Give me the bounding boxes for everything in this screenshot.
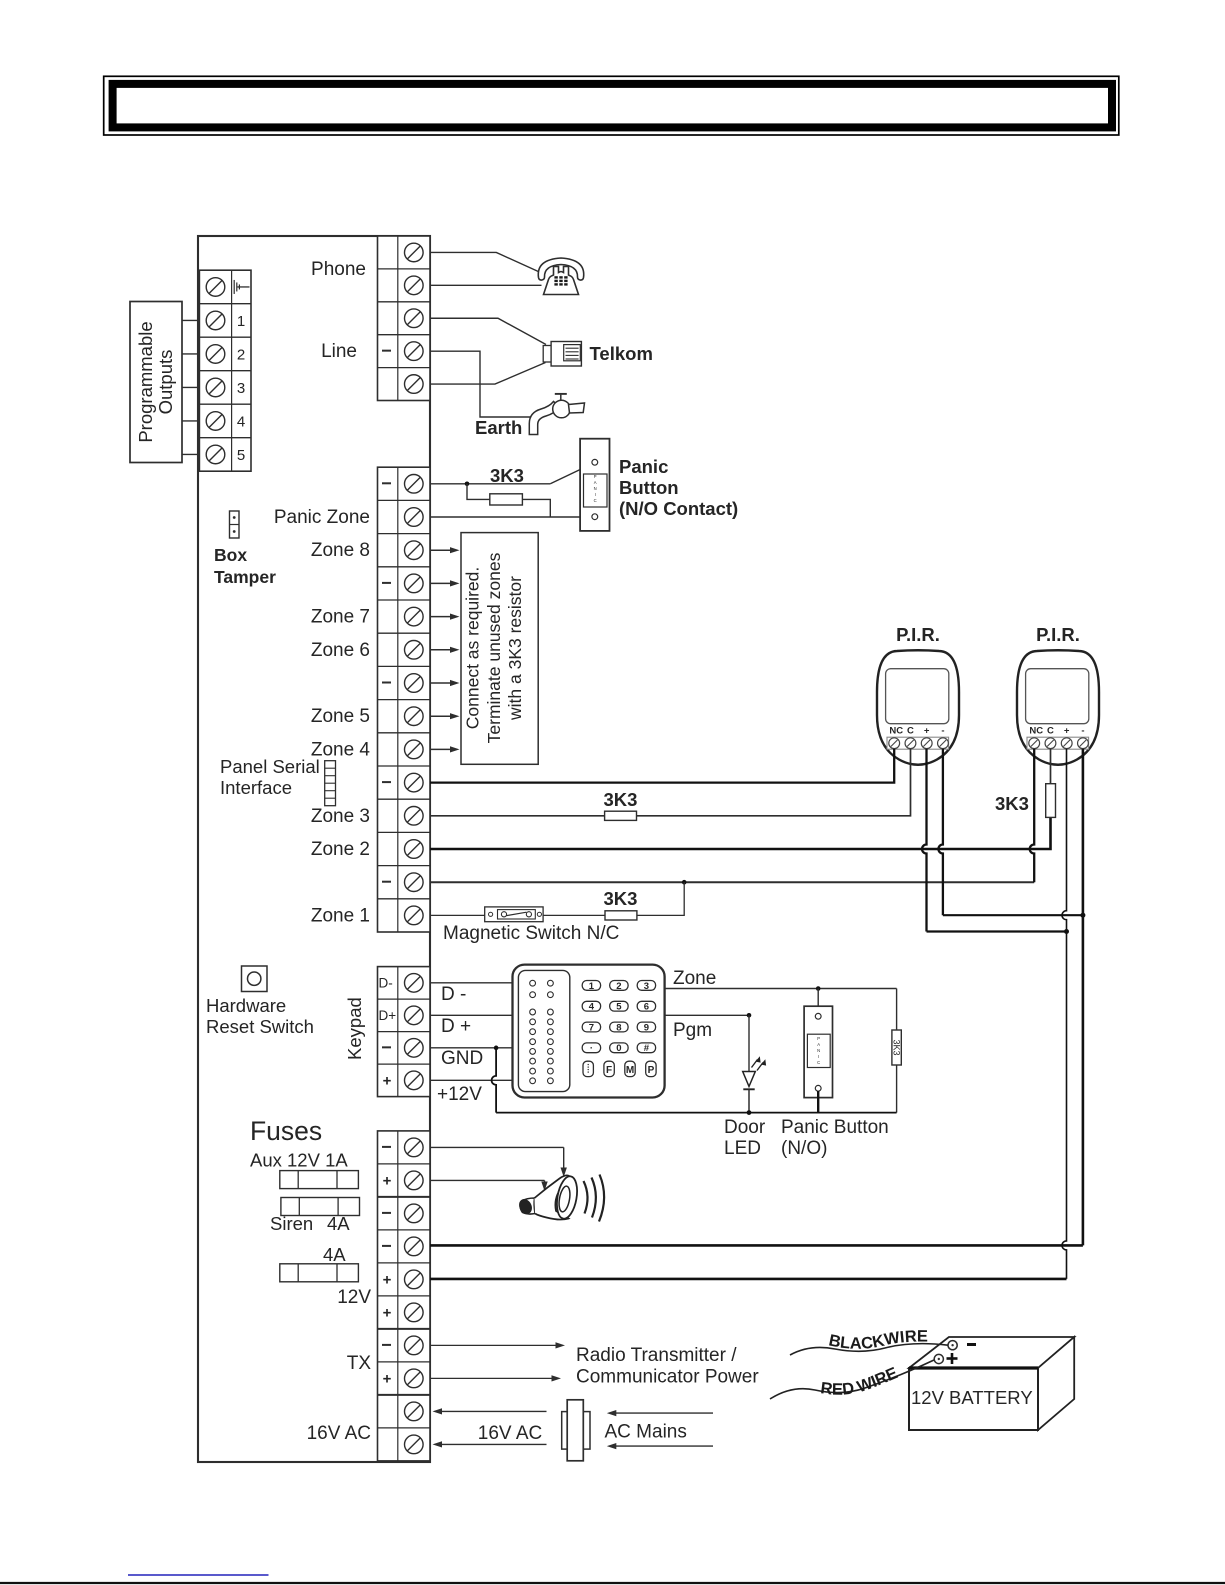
arrow zone terminal 2 to instruction box: [431, 547, 460, 553]
svg-text:Panel Serial: Panel Serial: [220, 756, 320, 777]
label 3K3 (zone 1 EOL): [604, 888, 638, 909]
PIR detector 1: [877, 650, 959, 765]
svg-text:D +: D +: [441, 1016, 471, 1037]
wire line-earth to tap: [430, 351, 534, 417]
svg-text:F: F: [606, 1065, 612, 1076]
label Magnetic Switch N/C: [443, 923, 619, 944]
svg-text:Interface: Interface: [220, 777, 292, 798]
wire AC mains to transformer 1: [607, 1410, 713, 1416]
panel serial interface connector: [325, 761, 336, 806]
svg-text:Reset Switch: Reset Switch: [206, 1016, 314, 1037]
resistor 3K3 (zone 3 EOL): [605, 811, 637, 820]
panic button 2 (keypad zone): [804, 1006, 832, 1097]
svg-text:5: 5: [616, 1002, 622, 1013]
svg-text:12V: 12V: [337, 1287, 371, 1308]
svg-text:2: 2: [616, 981, 621, 992]
wire PIR2 + down to +12V rail: [1062, 749, 1067, 1279]
label Line: [321, 341, 357, 362]
svg-text:1: 1: [237, 313, 245, 330]
label 4A: [323, 1244, 346, 1265]
fuse Siren 4A: [281, 1198, 360, 1216]
fuse Aux 12V 1A: [280, 1171, 359, 1189]
svg-text:Fuses: Fuses: [250, 1116, 322, 1146]
wire resistor to PIR2 C: [1050, 749, 1052, 784]
wire TX plus to radio transmitter: [430, 1375, 561, 1381]
wire phone tip to telephone: [430, 252, 541, 272]
svg-text:P: P: [648, 1065, 655, 1076]
wire keypad Zone output: [665, 986, 897, 991]
resistor 3K3 (panic EOL): [490, 494, 523, 505]
label 12V: [337, 1287, 371, 1308]
svg-text:with a 3K3 resistor: with a 3K3 resistor: [505, 576, 525, 721]
wire TX minus to radio transmitter: [430, 1342, 565, 1348]
power terminal strip: [378, 1131, 431, 1461]
wire aux minus to siren: [430, 1147, 567, 1177]
svg-text:Phone: Phone: [311, 259, 366, 280]
wire zone minus (cell13) to PIR2 NC: [430, 749, 1034, 885]
label Zone 8: [311, 540, 370, 561]
keypad buttons bell F M P: [583, 1061, 656, 1076]
svg-text:Earth: Earth: [475, 417, 522, 438]
svg-text:Box: Box: [214, 545, 247, 565]
battery terminal plus: [934, 1353, 957, 1364]
label Panic Button (N/O): [781, 1117, 889, 1159]
footer bottom rule: [0, 1582, 1225, 1584]
wire diagonal to panic button top: [550, 464, 591, 484]
svg-text:5: 5: [237, 447, 245, 464]
keypad strip pin labels D- D+ - +: [379, 975, 397, 1089]
label 3K3 (zone 3 EOL): [604, 789, 638, 810]
wire phone ring to telephone: [430, 284, 542, 286]
label Zone 3: [311, 806, 370, 827]
arrow zone terminal 8 to instruction box: [431, 746, 460, 752]
label Keypad (rotated): [344, 997, 365, 1060]
wires programmable outputs box to terminals 1-5: [182, 320, 199, 454]
0V rail to aux minus terminal: [430, 1244, 1083, 1247]
battery terminal minus: [948, 1341, 976, 1350]
wire PIR2 - down to 0V rail: [1082, 749, 1085, 1246]
wire node to panic button 2 top: [817, 989, 819, 1014]
svg-text:Zone 5: Zone 5: [311, 706, 370, 727]
label Zone 5: [311, 706, 370, 727]
magnetic switch N/C: [485, 907, 543, 922]
label Aux 12V 1A: [250, 1150, 348, 1171]
svg-text:TX: TX: [347, 1353, 372, 1374]
svg-text:6: 6: [644, 1002, 649, 1013]
title frame inner thick border: [113, 84, 1112, 128]
svg-text:4: 4: [589, 1002, 595, 1013]
svg-text:16V AC: 16V AC: [478, 1423, 542, 1444]
svg-text:Zone 3: Zone 3: [311, 806, 370, 827]
label Panic Zone: [274, 507, 370, 528]
svg-text:AC Mains: AC Mains: [605, 1422, 687, 1443]
svg-text:1: 1: [589, 981, 595, 992]
label Box Tamper: [214, 545, 276, 587]
label Fuses: [250, 1116, 322, 1146]
svg-text:P.I.R.: P.I.R.: [896, 624, 940, 645]
door LED symbol: [743, 1056, 766, 1115]
svg-text:4A: 4A: [323, 1244, 346, 1265]
svg-text:3K3: 3K3: [892, 1039, 902, 1055]
label 12V BATTERY: [911, 1387, 1033, 1408]
phone/line terminal strip: [378, 236, 431, 401]
svg-text:Tamper: Tamper: [214, 567, 276, 587]
label 3K3 (zone 2 EOL): [995, 793, 1029, 814]
svg-text:GND: GND: [441, 1048, 483, 1069]
label Zone 4: [311, 739, 371, 760]
svg-text:D+: D+: [379, 1008, 397, 1023]
label Zone 7: [311, 607, 370, 628]
svg-text:D-: D-: [379, 975, 393, 990]
wire PIR1 - down to minus link: [938, 749, 1085, 918]
label Panic Button (N/O Contact): [619, 456, 738, 519]
svg-text:+: +: [383, 1370, 392, 1387]
wire zone minus (cell10) to PIR1 NC: [430, 749, 894, 783]
zone terminal strip: [378, 467, 431, 932]
svg-text:9: 9: [644, 1022, 649, 1033]
svg-text:I: I: [818, 1054, 819, 1059]
svg-text:Button: Button: [619, 477, 679, 498]
svg-text:12V BATTERY: 12V BATTERY: [911, 1387, 1033, 1408]
wire panic zone to panic button bottom: [430, 516, 592, 518]
label AC Mains: [605, 1422, 687, 1443]
common/relay symbol at programmable output terminal: [234, 280, 249, 294]
svg-text:(N/O Contact): (N/O Contact): [619, 498, 738, 519]
svg-text:A: A: [817, 1042, 820, 1047]
keypad housing and connector: [513, 965, 665, 1098]
svg-text:7: 7: [589, 1022, 594, 1033]
svg-text:Panic Button: Panic Button: [781, 1117, 889, 1138]
label Telkom: [590, 343, 653, 364]
fuse 12V 4A: [280, 1264, 359, 1282]
svg-text:Connect as required.: Connect as required.: [463, 567, 483, 729]
siren horn speaker: [517, 1175, 605, 1222]
svg-text:16V AC: 16V AC: [307, 1423, 371, 1444]
label Panel Serial Interface: [220, 756, 320, 798]
earth tap icon: [529, 394, 584, 435]
label Earth: [475, 417, 522, 438]
svg-text:Aux 12V 1A: Aux 12V 1A: [250, 1150, 348, 1171]
svg-text:Communicator Power: Communicator Power: [576, 1367, 759, 1388]
wire Zone 3 to resistor: [430, 815, 605, 817]
svg-text:Zone 1: Zone 1: [311, 905, 370, 926]
svg-text:Panic Zone: Panic Zone: [274, 507, 370, 528]
svg-text:3K3: 3K3: [604, 888, 638, 909]
svg-text:Zone: Zone: [673, 968, 716, 989]
svg-text:NC: NC: [1029, 726, 1043, 737]
arrow zone terminal 6 to instruction box: [431, 680, 460, 686]
svg-text:8: 8: [616, 1022, 621, 1033]
svg-text:3K3: 3K3: [995, 793, 1029, 814]
arrow zone terminal 5 to instruction box: [431, 647, 460, 653]
svg-text:Zone 2: Zone 2: [311, 839, 370, 860]
svg-text:Zone 6: Zone 6: [311, 640, 370, 661]
telkom plug icon: [543, 342, 581, 367]
labels D - / D + / GND / +12V: [437, 984, 483, 1105]
main control panel PCB outline: [198, 236, 430, 1462]
wire PIR1 + down to plus rail junction: [922, 749, 1069, 934]
keypad wires D- D+ GND +12V: [430, 983, 513, 1081]
label TX: [347, 1353, 372, 1374]
svg-text:+: +: [383, 1271, 392, 1288]
instruction box terminate unused zones: [461, 533, 538, 765]
resistor 3K3 (keypad zone EOL): [892, 1030, 902, 1065]
wire resistor to PIR1 C: [637, 749, 911, 816]
label Zone 2: [311, 839, 370, 860]
svg-text:Programmable: Programmable: [135, 321, 156, 442]
programmable outputs box: [130, 302, 182, 463]
svg-text:3: 3: [237, 380, 245, 397]
arrow zone terminal 4 to instruction box: [431, 614, 460, 620]
wire transformer to 16VAC terminal 2: [433, 1441, 547, 1447]
wire keypad Pgm output: [665, 1013, 752, 1018]
label Door LED: [724, 1117, 766, 1159]
label P.I.R. 2: [1036, 624, 1080, 645]
+12V rail to aux plus terminal: [430, 1278, 1067, 1281]
wire AC mains to transformer 2: [607, 1443, 713, 1449]
wire resistor to 0V rail: [896, 1065, 898, 1113]
svg-text:+: +: [383, 1304, 392, 1321]
arrow zone terminal 7 to instruction box: [431, 713, 460, 719]
wire zone line down to resistor: [896, 989, 898, 1031]
panic button (N/O contact): [580, 439, 609, 531]
wire transformer to 16VAC terminal 1: [433, 1408, 547, 1414]
wire Zone 1 to magnetic switch: [430, 914, 485, 916]
svg-text:P.I.R.: P.I.R.: [1036, 624, 1080, 645]
svg-text:3K3: 3K3: [490, 465, 524, 486]
label Zone 1: [311, 905, 370, 926]
wire line-2 to telkom plug: [430, 363, 546, 385]
svg-text:0: 0: [616, 1043, 621, 1054]
svg-text:Pgm: Pgm: [673, 1020, 712, 1041]
label Zone (keypad): [673, 968, 716, 989]
svg-text:N: N: [594, 486, 597, 491]
battery black wire: [790, 1344, 948, 1355]
svg-text:N: N: [817, 1048, 820, 1053]
label 3K3 (panic EOL): [490, 465, 524, 486]
box tamper switch: [230, 511, 240, 538]
arrow zone terminal 3 to instruction box: [431, 580, 460, 586]
svg-text:P: P: [594, 474, 597, 479]
label BLACKWIRE: [827, 1328, 928, 1353]
svg-text:C: C: [1047, 726, 1054, 737]
svg-text:-: -: [1081, 726, 1084, 737]
svg-text:Zone 4: Zone 4: [311, 739, 371, 760]
svg-text:+: +: [383, 1172, 392, 1189]
svg-text:-: -: [941, 726, 944, 737]
svg-text:Line: Line: [321, 341, 357, 362]
resistor 3K3 (zone 2 EOL at PIR2): [1046, 784, 1056, 818]
svg-text:3K3: 3K3: [604, 789, 638, 810]
wire zone 1 resistor up to minus rail: [637, 882, 684, 915]
PIR detector 2: [1017, 650, 1099, 765]
label Hardware Reset Switch: [206, 995, 314, 1037]
svg-text:(N/O): (N/O): [781, 1138, 827, 1159]
label Phone: [311, 259, 366, 280]
svg-text:#: #: [644, 1043, 650, 1054]
label Siren 4A: [270, 1213, 350, 1234]
svg-text:P: P: [817, 1036, 820, 1041]
svg-text:C: C: [907, 726, 914, 737]
keypad terminal strip: [378, 967, 431, 1097]
wire aux plus to siren: [430, 1180, 548, 1191]
svg-text:A: A: [594, 480, 597, 485]
svg-text:·: ·: [590, 1043, 593, 1054]
transformer 16V AC: [562, 1400, 590, 1461]
battery 12V box: [909, 1337, 1074, 1430]
telephone icon: [538, 258, 583, 295]
hardware reset switch: [242, 966, 268, 992]
wire panic button 2 bottom to 0V rail: [817, 1091, 819, 1113]
svg-text:Terminate unused zones: Terminate unused zones: [484, 552, 504, 743]
title frame outer border: [104, 76, 1119, 135]
svg-text:Zone 8: Zone 8: [311, 540, 370, 561]
svg-text:3: 3: [644, 981, 649, 992]
svg-text:C: C: [817, 1060, 820, 1065]
0V wire from GND node to rail: [492, 1048, 897, 1113]
wire node to resistor 3K3: [467, 484, 490, 500]
wire magnetic switch to resistor: [543, 914, 605, 916]
svg-text:Radio Transmitter /: Radio Transmitter /: [576, 1345, 737, 1366]
svg-text:Hardware: Hardware: [206, 995, 286, 1016]
wire Zone 2 to PIR2 3K3 resistor: [430, 817, 1051, 849]
svg-text:C: C: [594, 498, 597, 503]
svg-text:I: I: [595, 492, 596, 497]
svg-text:Telkom: Telkom: [590, 343, 653, 364]
svg-text:Magnetic Switch N/C: Magnetic Switch N/C: [443, 923, 619, 944]
label RED WIRE: [820, 1364, 901, 1399]
svg-text:+: +: [1064, 726, 1070, 737]
svg-text:Keypad: Keypad: [344, 997, 365, 1060]
label Radio Transmitter / Communicator Power: [576, 1345, 759, 1388]
wire line-1 to telkom plug: [430, 318, 546, 344]
programmable outputs terminal strip: [199, 270, 251, 471]
svg-text:4: 4: [237, 413, 245, 430]
svg-text:LED: LED: [724, 1138, 761, 1159]
svg-text:M: M: [626, 1065, 634, 1076]
svg-text:NC: NC: [889, 726, 903, 737]
svg-text:Panic: Panic: [619, 456, 668, 477]
label P.I.R. 1: [896, 624, 940, 645]
svg-text:Zone 7: Zone 7: [311, 607, 370, 628]
svg-text:Door: Door: [724, 1117, 766, 1138]
svg-text:Outputs: Outputs: [155, 350, 176, 415]
battery red wire: [770, 1360, 934, 1399]
label Pgm (keypad): [673, 1020, 712, 1041]
label Zone 6: [311, 640, 370, 661]
footer blue rule: [128, 1574, 269, 1576]
label 16V AC (wires): [478, 1423, 542, 1444]
svg-text:D -: D -: [441, 984, 466, 1005]
svg-text:+: +: [383, 1072, 392, 1089]
svg-text:2: 2: [237, 346, 245, 363]
label 16V AC: [307, 1423, 371, 1444]
wire panic minus with node: [430, 482, 550, 487]
wire resistor to panic zone line: [522, 499, 550, 517]
keypad buttons 1-9 0 # dot: [582, 981, 655, 1055]
svg-text:+12V: +12V: [437, 1084, 482, 1105]
wire node to door LED: [748, 1015, 750, 1071]
resistor 3K3 (zone 1 EOL): [605, 911, 637, 920]
svg-text:+: +: [924, 726, 930, 737]
